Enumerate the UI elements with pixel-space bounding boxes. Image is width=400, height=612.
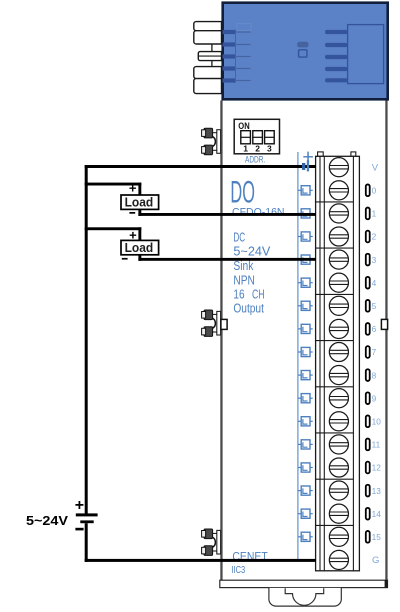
backplane connector middle tab <box>198 52 221 61</box>
LED column rail <box>297 152 299 559</box>
svg-text:5~24V: 5~24V <box>233 243 270 258</box>
terminal screw 10 <box>329 412 348 431</box>
svg-text:DO: DO <box>230 174 255 210</box>
svg-text:5: 5 <box>372 301 377 311</box>
terminal screw 15 <box>329 527 348 546</box>
terminal pin marker 1 <box>366 208 370 220</box>
output LED 5 <box>298 301 313 310</box>
blue block small icon <box>297 42 308 57</box>
terminal screw 7 <box>329 342 348 361</box>
terminal screw 14 <box>329 504 348 523</box>
wire: branch to Load2 + <box>85 227 142 230</box>
terminal pin marker 6 <box>366 323 370 335</box>
DIP switch ADDR box <box>234 119 279 154</box>
mounting tab left <box>221 319 227 329</box>
output LED 6 <box>298 324 313 333</box>
terminal pin marker 13 <box>366 485 370 497</box>
svg-text:Load: Load <box>125 196 154 210</box>
module bottom plate <box>220 580 388 587</box>
wire: branch to Load1 + <box>85 183 142 186</box>
blue block centre contact bar 2 <box>325 43 348 47</box>
svg-text:2: 2 <box>372 232 377 242</box>
terminal section divider 1 <box>316 201 354 203</box>
battery BT1 5~24V <box>76 513 98 523</box>
terminal screw 12 <box>329 458 348 477</box>
spec text 16 CH <box>233 286 264 301</box>
output LED 3 <box>298 255 313 264</box>
terminal screw 4 <box>329 273 348 292</box>
svg-text:4: 4 <box>372 278 377 288</box>
terminal screw 0 <box>329 181 348 200</box>
blue block left pin bar 4 <box>223 66 251 70</box>
terminal pin marker 8 <box>366 369 370 381</box>
svg-text:3: 3 <box>372 255 377 265</box>
terminal section divider 5 <box>316 386 354 388</box>
blue block right inner rect <box>348 25 384 84</box>
terminal pin marker 0 <box>366 184 370 196</box>
output LED 15 <box>298 532 313 541</box>
svg-text:2: 2 <box>255 144 260 154</box>
svg-text:12: 12 <box>372 463 382 473</box>
wire: Load2 - to terminal 3 row <box>138 255 141 261</box>
module body (white case) <box>223 101 386 581</box>
blue block left pin bar 1 <box>223 30 251 34</box>
DIN rail clamp (bottom) <box>202 529 221 555</box>
svg-text:ADDR.: ADDR. <box>245 155 265 165</box>
Load2 minus label <box>122 258 128 260</box>
blue block centre contact bar 1 <box>325 30 348 34</box>
load L2 box <box>121 240 159 254</box>
output LED 4 <box>298 278 313 287</box>
battery minus label <box>75 528 83 531</box>
terminal screw 3 <box>329 250 348 269</box>
terminal screw 6 <box>329 319 348 338</box>
output LED 13 <box>298 486 313 495</box>
svg-text:8: 8 <box>372 370 377 380</box>
DIP switch lever 2 <box>253 131 263 144</box>
backplane connector finger 4 <box>194 79 222 94</box>
terminal block rail line 1 <box>319 156 321 571</box>
terminal section divider 6 <box>316 432 354 434</box>
output LED 12 <box>298 463 313 472</box>
DIP switch lever 3 <box>265 131 275 144</box>
svg-text:13: 13 <box>372 486 382 496</box>
terminal block body <box>316 156 360 571</box>
load L1 box <box>121 195 159 209</box>
output LED 1 <box>298 209 313 218</box>
terminal screw 5 <box>329 296 348 315</box>
terminal screw 13 <box>329 481 348 500</box>
terminal pin marker 11 <box>366 439 370 451</box>
DIP switch lever 1 <box>241 131 251 144</box>
output LED 9 <box>298 394 313 403</box>
terminal pin marker 4 <box>366 277 370 289</box>
output LED 0 <box>298 186 313 195</box>
svg-text:6: 6 <box>372 324 377 334</box>
svg-text:V: V <box>372 162 379 173</box>
svg-text:11: 11 <box>372 440 381 450</box>
svg-text:16: 16 <box>233 286 244 301</box>
terminal pin marker 10 <box>366 415 370 427</box>
terminal screw 11 <box>329 435 348 454</box>
module left edge <box>220 101 222 581</box>
terminal pin marker 3 <box>366 254 370 266</box>
svg-text:CH: CH <box>252 286 265 301</box>
svg-text:Output: Output <box>233 300 264 315</box>
blue block left pin bar 5 <box>223 78 251 82</box>
module right edge <box>385 101 387 581</box>
blue block centre contact bar 3 <box>325 55 348 59</box>
output LED 8 <box>298 371 313 380</box>
svg-text:9: 9 <box>372 393 377 403</box>
blue block left pin bar 3 <box>223 54 251 58</box>
blue block centre contact bar 5 <box>325 78 348 82</box>
blue block pin header line <box>235 30 237 84</box>
backplane connector finger 1 <box>194 22 222 31</box>
wire: +V bus vertical <box>85 165 88 514</box>
svg-text:CFDO-16N: CFDO-16N <box>232 207 285 219</box>
svg-text:3: 3 <box>267 144 272 154</box>
svg-text:+: + <box>129 181 137 196</box>
terminal pin marker 14 <box>366 508 370 520</box>
blue block left pin bar 2 <box>223 42 251 46</box>
terminal pin marker 9 <box>366 392 370 404</box>
terminal block rail line 3 <box>352 156 354 571</box>
terminal pin marker 5 <box>366 300 370 312</box>
svg-text:7: 7 <box>372 347 377 357</box>
svg-text:14: 14 <box>372 509 382 519</box>
terminal screw 2 <box>329 227 348 246</box>
terminal section divider 2 <box>316 247 354 249</box>
output LED 14 <box>298 509 313 518</box>
terminal pin marker 7 <box>366 346 370 358</box>
svg-text:1: 1 <box>243 144 248 154</box>
terminal section divider 7 <box>316 478 354 480</box>
CPU/comm blue block <box>223 3 388 100</box>
terminal pin marker 2 <box>366 231 370 243</box>
svg-text:DC: DC <box>233 229 245 244</box>
output LED 2 <box>298 232 313 241</box>
terminal screw V <box>329 158 348 177</box>
terminal section divider 4 <box>316 340 354 342</box>
terminal screw G <box>329 550 348 569</box>
svg-text:15: 15 <box>372 532 382 542</box>
svg-text:Load: Load <box>125 241 154 255</box>
svg-text:IIC3: IIC3 <box>231 564 245 576</box>
mounting tab right <box>381 319 387 329</box>
output LED 11 <box>298 440 313 449</box>
terminal section divider 8 <box>316 524 354 526</box>
svg-text:+: + <box>75 497 84 514</box>
terminal block top tab left <box>318 152 324 156</box>
svg-text:10: 10 <box>372 417 382 427</box>
DIN rail clamp (middle) <box>202 310 221 336</box>
V terminal connector symbol <box>302 152 313 172</box>
wire: battery - down <box>85 523 88 562</box>
svg-text:ON: ON <box>238 121 249 131</box>
terminal block top tab right <box>351 152 356 156</box>
terminal pin marker 15 <box>366 531 370 543</box>
blue block centre contact bar 4 <box>325 67 348 71</box>
backplane connector finger 3 <box>194 67 222 79</box>
terminal screw 1 <box>329 204 348 223</box>
bottom plate right cap <box>385 580 388 587</box>
Load1 minus label <box>129 212 135 214</box>
svg-text:NPN: NPN <box>233 272 255 287</box>
output LED 10 <box>298 417 313 426</box>
terminal pin marker 12 <box>366 462 370 474</box>
wire: bus to terminal V <box>85 165 316 168</box>
svg-text:1: 1 <box>372 209 377 219</box>
terminal screw 8 <box>329 366 348 385</box>
bottom foot notch <box>285 588 323 605</box>
svg-text:5~24V: 5~24V <box>26 513 68 528</box>
wire: Load1 - to terminal 0 row <box>138 209 141 216</box>
svg-text:0: 0 <box>372 186 377 196</box>
backplane connector finger 2 <box>194 31 222 44</box>
output LED 7 <box>298 347 313 356</box>
wire: battery - to terminal G <box>85 559 316 562</box>
terminal block rail line 2 <box>323 156 325 571</box>
terminal screw 9 <box>329 389 348 408</box>
bottom foot <box>269 588 341 606</box>
DIN rail clamp (top) <box>202 128 221 154</box>
terminal section divider 3 <box>316 293 354 295</box>
svg-text:G: G <box>372 555 379 566</box>
blue block small label rect <box>237 24 251 31</box>
